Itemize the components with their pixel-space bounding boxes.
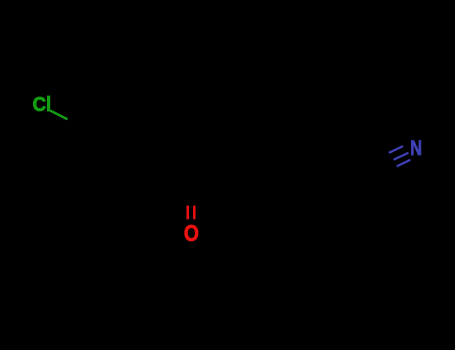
alkyl chain wires (black) — [191, 167, 379, 190]
bond ring-C(=O) wire — [158, 172, 191, 190]
svg-text:N: N — [410, 136, 422, 160]
nitrile C black half lines — [379, 160, 394, 167]
bond C1-Cl black half — [68, 119, 86, 128]
bond C1-Cl green half — [50, 111, 67, 120]
svg-text:Cl: Cl — [33, 94, 52, 116]
nitrile triple bond blue halves — [389, 146, 411, 166]
benzene ring (black, invisible on background) — [84, 112, 159, 188]
carbonyl C=O double bond black halves — [187, 190, 189, 206]
svg-text:O: O — [184, 220, 199, 246]
carbonyl C=O double bond red halves — [187, 206, 190, 220]
